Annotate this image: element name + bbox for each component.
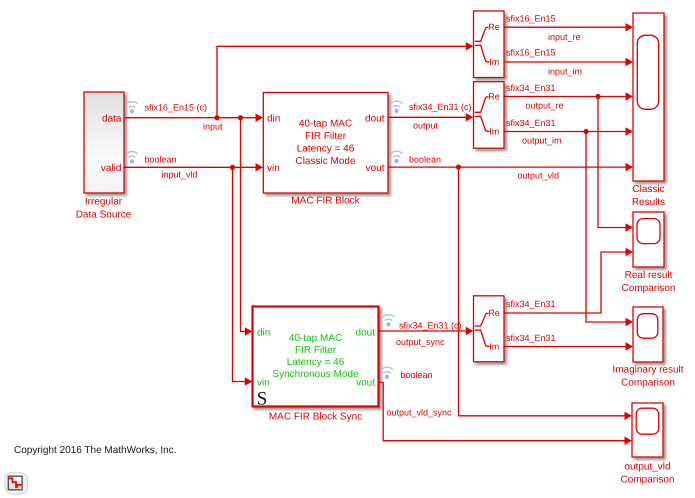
svg-text:MAC FIR Block Sync: MAC FIR Block Sync — [269, 412, 362, 423]
arrow into U1 — [466, 42, 474, 50]
svg-text:vout: vout — [356, 377, 375, 388]
arrow into U2 — [466, 113, 474, 121]
logging badge on sync dout wire — [383, 315, 395, 327]
svg-text:output_re: output_re — [526, 101, 564, 111]
svg-text:Results: Results — [632, 197, 665, 208]
svg-text:dout: dout — [356, 327, 376, 338]
svg-text:din: din — [257, 327, 270, 338]
svg-text:Re: Re — [488, 22, 500, 32]
arrow into scope1 port4 — [626, 127, 634, 135]
wire sync dout -> U3 — [379, 330, 466, 332]
wire U3 Im -> scope3 input2 — [504, 346, 626, 348]
arrow into scope1 port1 — [626, 23, 634, 31]
svg-text:Comparison: Comparison — [621, 377, 675, 388]
svg-text:boolean: boolean — [401, 370, 433, 380]
svg-text:FIR Filter: FIR Filter — [305, 131, 347, 142]
junction valid/down — [230, 165, 235, 170]
arrow into scope1 port5 — [626, 163, 634, 171]
svg-text:Im: Im — [489, 341, 499, 351]
badge sample-time legend button — [5, 473, 28, 495]
junction output_vld — [456, 165, 461, 170]
block scope Real result Comparison — [622, 212, 676, 294]
svg-text:MAC FIR Block: MAC FIR Block — [291, 196, 360, 207]
svg-text:sfix34_En31: sfix34_En31 — [506, 333, 556, 343]
svg-text:Re: Re — [488, 91, 500, 101]
junction output_im — [583, 129, 588, 134]
arrow into scope4 input1 — [625, 412, 633, 420]
wire output_im down to scope3 input1 — [586, 132, 626, 323]
junction data/up — [214, 115, 219, 120]
svg-text:valid: valid — [101, 163, 122, 174]
block complex-to-real-imag U2 (classic output) — [474, 82, 505, 149]
logging badge on sync vout wire — [381, 367, 393, 379]
logging badge on valid wire — [126, 152, 138, 164]
svg-text:Classic Mode: Classic Mode — [295, 156, 355, 167]
arrow into scope2 input2 — [626, 248, 634, 256]
arrow into scope3 input1 — [626, 318, 634, 326]
svg-text:input_vld: input_vld — [162, 169, 198, 179]
wire branch valid down to sync vin — [233, 167, 246, 381]
svg-text:output_im: output_im — [522, 136, 562, 146]
arrow into sync din — [245, 327, 253, 335]
svg-text:Classic: Classic — [632, 184, 664, 195]
svg-text:Imaginary result: Imaginary result — [612, 365, 683, 376]
svg-text:Real result: Real result — [625, 270, 673, 281]
arrow into scope1 port2 — [626, 58, 634, 66]
wire U1 Im -> scope1 port2 — [504, 61, 626, 63]
svg-text:output_sync: output_sync — [396, 337, 445, 347]
svg-text:input_im: input_im — [548, 67, 582, 77]
arrow into din — [256, 114, 264, 122]
svg-text:sfix34_En31: sfix34_En31 — [506, 299, 556, 309]
wire sync vout -> scope4 input2 — [379, 383, 625, 441]
arrow into scope3 input2 — [626, 342, 634, 350]
svg-text:sfix16_En15: sfix16_En15 — [506, 14, 556, 24]
svg-text:input: input — [203, 121, 223, 131]
svg-text:Synchronous Mode: Synchronous Mode — [272, 369, 359, 380]
svg-text:din: din — [267, 113, 280, 124]
svg-text:output_vld: output_vld — [518, 170, 560, 180]
svg-text:data: data — [102, 113, 122, 124]
junction data/down — [238, 115, 243, 120]
svg-text:sfix34_En31 (c): sfix34_En31 (c) — [399, 320, 462, 330]
svg-text:Im: Im — [489, 126, 499, 136]
svg-text:output_vld_sync: output_vld_sync — [387, 407, 453, 417]
arrow into sync vin — [245, 377, 253, 385]
svg-text:S: S — [257, 388, 268, 409]
svg-text:Copyright 2016 The MathWorks,: Copyright 2016 The MathWorks, Inc. — [14, 445, 177, 456]
svg-text:sfix34_En31: sfix34_En31 — [506, 83, 556, 93]
svg-text:Re: Re — [488, 308, 500, 318]
svg-text:output_vld: output_vld — [624, 462, 670, 473]
logging badge on classic dout wire — [391, 101, 403, 113]
wire U1 Re -> scope1 port1 — [504, 26, 626, 28]
wire U2 Im -> scope1 port4 — [504, 131, 626, 133]
svg-text:Im: Im — [489, 57, 499, 67]
block complex-to-real-imag U1 (input) — [474, 11, 505, 78]
svg-text:sfix16_En15 (c): sfix16_En15 (c) — [145, 103, 208, 113]
block MAC FIR Block — [263, 93, 388, 207]
svg-text:40-tap MAC: 40-tap MAC — [289, 333, 342, 344]
wire classic dout -> U2 — [388, 116, 466, 118]
svg-text:40-tap MAC: 40-tap MAC — [299, 119, 352, 130]
wire valid -> vin — [124, 166, 256, 168]
wire branch data up to U1 — [217, 46, 466, 117]
svg-text:vin: vin — [267, 163, 280, 174]
svg-text:vin: vin — [257, 377, 270, 388]
svg-text:Latency = 46: Latency = 46 — [287, 357, 345, 368]
wire output_vld down to scope4 input1 — [459, 167, 626, 416]
svg-text:Comparison: Comparison — [621, 474, 675, 485]
svg-text:FIR Filter: FIR Filter — [295, 345, 337, 356]
arrow into scope4 input2 — [625, 437, 633, 445]
svg-text:boolean: boolean — [145, 154, 177, 164]
svg-text:sfix34_En31 (c): sfix34_En31 (c) — [409, 102, 472, 112]
wire U2 Re -> scope1 port3 — [504, 96, 626, 98]
wire data -> din — [124, 117, 256, 119]
svg-text:Latency = 46: Latency = 46 — [297, 143, 355, 154]
wire output_re down to scope2 input1 — [598, 97, 626, 228]
svg-text:sfix16_En15: sfix16_En15 — [506, 48, 556, 58]
block complex-to-real-imag U3 (sync output) — [474, 296, 505, 362]
wire U3 Re -> scope2 input2 — [504, 252, 626, 313]
svg-text:vout: vout — [366, 163, 385, 174]
arrow into vin — [256, 163, 264, 171]
logging badge on data wire — [126, 102, 138, 114]
block Irregular Data Source — [76, 92, 132, 221]
junction output_re — [595, 94, 600, 99]
block scope Classic Results — [632, 13, 665, 208]
svg-text:Comparison: Comparison — [622, 283, 676, 294]
svg-text:dout: dout — [365, 113, 385, 124]
svg-text:Irregular: Irregular — [85, 197, 123, 208]
block scope output_vld Comparison — [621, 403, 675, 485]
logging badge on classic vout wire — [391, 151, 403, 163]
svg-text:sfix34_En31: sfix34_En31 — [506, 118, 556, 128]
block MAC FIR Block Sync — [253, 307, 379, 423]
wire classic vout -> scope port5 (output_vld) — [388, 166, 626, 168]
arrow into scope1 port3 — [626, 92, 634, 100]
svg-text:output: output — [413, 120, 439, 130]
wire branch data down to sync din — [241, 118, 246, 332]
arrow into U3 — [466, 327, 474, 335]
svg-text:input_re: input_re — [548, 32, 581, 42]
arrow into scope2 input1 — [626, 223, 634, 231]
svg-text:boolean: boolean — [409, 154, 441, 164]
svg-text:Data Source: Data Source — [76, 210, 132, 221]
block scope Imaginary result Comparison — [612, 307, 683, 388]
